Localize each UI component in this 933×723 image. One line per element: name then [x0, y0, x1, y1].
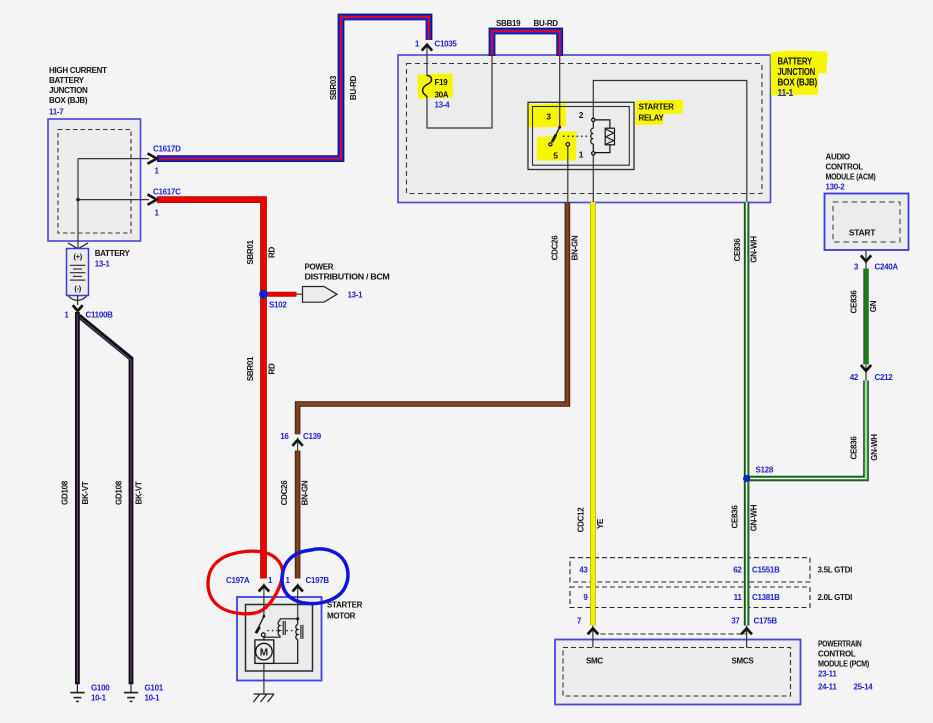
- connector arrow C197A: [259, 586, 269, 592]
- relay moving contact: [549, 143, 552, 146]
- svg-text:CONTROL: CONTROL: [826, 163, 864, 172]
- svg-text:S128: S128: [756, 466, 774, 475]
- svg-text:CE836: CE836: [733, 238, 742, 262]
- starter motor inner box: [246, 605, 313, 672]
- wire: branch to C1617D: [78, 158, 149, 160]
- svg-text:BN-GN: BN-GN: [301, 480, 310, 505]
- label: SMC SMCS: [586, 656, 754, 665]
- svg-text:CE836: CE836: [850, 436, 859, 460]
- svg-text:JUNCTION: JUNCTION: [778, 67, 816, 78]
- svg-text:2: 2: [579, 110, 584, 120]
- svg-text:130-2: 130-2: [826, 183, 846, 192]
- svg-text:BK-VT: BK-VT: [81, 481, 90, 504]
- svg-text:G100: G100: [91, 684, 110, 693]
- battery chevron connector (top): [68, 243, 88, 249]
- wire: battery to C1100B: [77, 296, 79, 306]
- svg-text:43: 43: [579, 566, 588, 575]
- svg-text:25-14: 25-14: [854, 682, 874, 691]
- svg-text:C240A: C240A: [875, 263, 899, 272]
- highlight: BATTERY JUNCTION BOX (BJB) 11-1 label: [771, 51, 828, 96]
- connector box: 3.5L GTDI (C1551B row): [570, 558, 810, 582]
- svg-text:SBR01: SBR01: [246, 356, 255, 381]
- svg-text:GN-WH: GN-WH: [870, 434, 879, 461]
- relay resistor (parallel with coil): [595, 120, 610, 153]
- label: C197A 1: [226, 576, 273, 585]
- svg-text:C1617C: C1617C: [153, 187, 181, 196]
- svg-text:BU-RD: BU-RD: [534, 19, 559, 28]
- label: G100 10-1: [91, 684, 110, 703]
- svg-text:62: 62: [733, 566, 742, 575]
- label: 9 11 C1381B 2.0L GTDI: [583, 593, 852, 602]
- svg-text:42: 42: [850, 373, 859, 382]
- wire: C1035 lead into BJB: [426, 44, 428, 77]
- label: BATTERY 13-1: [95, 249, 131, 269]
- label: 43 62 C1551B 3.5L GTDI: [579, 566, 852, 575]
- wire CE836 GN (C240A to C212): [863, 269, 868, 365]
- svg-text:MOTOR: MOTOR: [327, 612, 356, 621]
- svg-text:16: 16: [280, 432, 289, 441]
- svg-text:BK-VT: BK-VT: [135, 481, 144, 504]
- svg-text:C139: C139: [303, 432, 322, 441]
- wire: branch to C1617C: [78, 199, 149, 201]
- svg-text:RELAY: RELAY: [639, 114, 665, 123]
- starter solenoid coil 2 (hold-in): [297, 619, 299, 625]
- svg-text:37: 37: [731, 617, 740, 626]
- connector bracket C175B (dashed): [601, 633, 747, 635]
- svg-text:CDC26: CDC26: [551, 235, 560, 261]
- svg-text:SBR01: SBR01: [246, 240, 255, 265]
- svg-text:MODULE (ACM): MODULE (ACM): [826, 173, 877, 182]
- wire RD stub (S102 to BCM): [264, 292, 297, 297]
- wire: ACM START lead to C240A: [865, 250, 867, 269]
- label: battery (+) (-): [73, 252, 82, 293]
- wire: relay pin 2 up and over to green exit: [593, 81, 747, 203]
- svg-text:SMCS: SMCS: [732, 656, 755, 665]
- module box: AUDIO CONTROL MODULE (ACM): [825, 194, 909, 251]
- svg-text:S102: S102: [269, 301, 287, 310]
- svg-text:BOX (BJB): BOX (BJB): [778, 78, 818, 89]
- svg-text:BOX (BJB): BOX (BJB): [49, 96, 88, 105]
- svg-text:GN: GN: [869, 300, 878, 312]
- ground G100: [70, 684, 84, 701]
- label: SBB19 BU-RD: [496, 19, 558, 28]
- svg-text:1: 1: [579, 150, 584, 160]
- wire: C197B lead into starter motor: [297, 584, 299, 619]
- module box: HIGH CURRENT BATTERY JUNCTION BOX (BJB): [48, 119, 141, 241]
- connector arrow C240A (down): [861, 255, 871, 261]
- connector arrow C1617C: [148, 194, 157, 204]
- svg-text:24-11: 24-11: [818, 682, 837, 691]
- svg-text:C1617D: C1617D: [153, 145, 181, 154]
- chassis ground (starter motor): [253, 694, 274, 702]
- svg-text:13-4: 13-4: [435, 101, 451, 110]
- module box: BATTERY JUNCTION BOX (BJB) top: [398, 55, 771, 203]
- label: relay pins 3 2 5 1: [546, 110, 584, 161]
- annotation: hand-drawn red circle around C197A: [208, 551, 283, 614]
- svg-text:START: START: [849, 228, 876, 238]
- label: 16 C139: [280, 432, 322, 441]
- connector arrow C212 (down): [861, 365, 871, 371]
- svg-text:F19: F19: [435, 78, 449, 87]
- fuse F19 30A: [423, 76, 432, 98]
- label: G101 10-1: [145, 684, 164, 703]
- splice S102: [259, 290, 268, 299]
- svg-text:BATTERY: BATTERY: [49, 76, 85, 85]
- wire BK-VT right (C1100B to G101): [79, 316, 131, 684]
- wire CDC26 BN-GN (C139 to C197B): [295, 451, 301, 579]
- starter switch contact: [261, 633, 265, 637]
- label: STARTER RELAY: [639, 103, 675, 123]
- starter solenoid coil 1 (pull-in): [280, 618, 298, 620]
- svg-text:C1035: C1035: [435, 40, 458, 49]
- svg-text:3: 3: [546, 112, 551, 122]
- svg-text:C175B: C175B: [754, 617, 778, 626]
- starter linkage dotted line: [267, 630, 293, 632]
- svg-text:DISTRIBUTION / BCM: DISTRIBUTION / BCM: [305, 273, 391, 282]
- starter switch blade: [257, 616, 264, 631]
- highlight: fuse F19: [418, 74, 454, 99]
- wire SBR03 BU-RD (C1617D to C1035): [157, 17, 429, 159]
- svg-text:BATTERY: BATTERY: [778, 57, 813, 68]
- relay linkage dotted line: [563, 135, 587, 137]
- wire: PCM pin 7 lead: [592, 624, 594, 648]
- svg-text:SBR03: SBR03: [329, 75, 338, 100]
- connector arrow C139: [292, 440, 302, 446]
- wire CDC26 BN-GN (relay pin 5 to C139): [298, 202, 568, 434]
- svg-text:JUNCTION: JUNCTION: [49, 86, 88, 95]
- wire: PCM pin 37 lead: [746, 624, 748, 648]
- svg-text:CE836: CE836: [731, 505, 740, 529]
- svg-text:5: 5: [553, 151, 558, 161]
- svg-text:30A: 30A: [435, 91, 449, 100]
- relay coil (pins 2-1): [592, 118, 595, 121]
- relay fixed contact (pin 5): [566, 143, 570, 147]
- svg-text:10-1: 10-1: [91, 694, 107, 703]
- connector arrow C1100B (down): [73, 305, 83, 311]
- battery plates: [70, 265, 86, 280]
- label: C1617D: [153, 145, 181, 176]
- svg-text:CDC26: CDC26: [280, 480, 289, 506]
- connector box: 2.0L GTDI (C1381B row): [570, 587, 810, 608]
- svg-text:3.5L GTDI: 3.5L GTDI: [818, 566, 853, 575]
- svg-text:CE836: CE836: [850, 290, 859, 314]
- wire CE836 GN-WH (relay pin 2 to S128 to PCM SMCS): [744, 202, 750, 626]
- connector arrow C197B: [293, 586, 303, 592]
- label: 42 C212: [850, 373, 894, 382]
- svg-text:POWERTRAIN: POWERTRAIN: [818, 640, 862, 649]
- svg-text:(-): (-): [74, 284, 81, 293]
- wire: S102 stub to BCM pentagon: [296, 293, 303, 295]
- svg-text:YE: YE: [596, 518, 605, 529]
- svg-text:C197A: C197A: [226, 576, 250, 585]
- svg-text:AUDIO: AUDIO: [826, 153, 850, 162]
- svg-text:POWER: POWER: [305, 263, 334, 272]
- module box: STARTER MOTOR (outer blue): [237, 597, 322, 681]
- wire: fuse to SBB19 left leg: [427, 56, 492, 128]
- wire CDC12 YE (relay pin 1 to PCM SMC): [590, 202, 596, 626]
- wire SBR01 RD (C1617C to S102 to C197A): [157, 200, 264, 579]
- ground G101: [124, 684, 138, 701]
- label: STARTER MOTOR: [327, 601, 363, 621]
- highlight: STARTER RELAY label: [636, 100, 684, 125]
- starter switch pivot: [263, 615, 266, 618]
- svg-text:GN-WH: GN-WH: [750, 236, 759, 263]
- label: 1 C1100B: [64, 311, 113, 320]
- svg-text:13-1: 13-1: [348, 291, 364, 300]
- label: AUDIO CONTROL MODULE (ACM) 130-2: [826, 153, 877, 192]
- svg-text:CDC12: CDC12: [577, 507, 586, 533]
- node: POWER DISTRIBUTION / BCM pentagon: [303, 287, 338, 303]
- label: HIGH CURRENT BJB text block: [49, 66, 107, 117]
- connector arrow PCM pin 7: [588, 628, 599, 634]
- svg-text:23-11: 23-11: [818, 670, 837, 679]
- wire: C212 gap lead: [865, 365, 867, 381]
- wire: relay pin 5 down to brown exit: [567, 146, 569, 202]
- wire: C197A lead into starter motor: [263, 584, 265, 617]
- svg-text:GD108: GD108: [115, 480, 124, 505]
- label: POWERTRAIN CONTROL MODULE (PCM): [818, 640, 873, 692]
- wire: SBB19 right leg down to relay pin 3: [559, 56, 561, 127]
- label: POWER DISTRIBUTION / BCM 13-1: [305, 263, 391, 300]
- junction node (BJB-HC): [76, 198, 80, 202]
- label: 1 C1035: [415, 40, 458, 49]
- junction node (starter solenoid feed): [296, 617, 299, 620]
- svg-text:STARTER: STARTER: [639, 103, 675, 112]
- label: C1617C: [153, 187, 181, 217]
- wire BK-VT left (C1100B to G100): [75, 312, 80, 684]
- battery B1 box: [67, 249, 89, 296]
- svg-text:G101: G101: [145, 684, 164, 693]
- motor M (starter): [255, 640, 274, 664]
- svg-text:MODULE (PCM): MODULE (PCM): [818, 660, 870, 669]
- svg-text:C1381B: C1381B: [752, 593, 780, 602]
- svg-text:2.0L GTDI: 2.0L GTDI: [818, 593, 853, 602]
- svg-text:RD: RD: [268, 247, 277, 258]
- svg-text:HIGH CURRENT: HIGH CURRENT: [49, 66, 107, 75]
- svg-text:C1100B: C1100B: [86, 311, 114, 320]
- svg-text:C212: C212: [875, 373, 894, 382]
- svg-text:RD: RD: [268, 363, 277, 374]
- svg-text:SMC: SMC: [586, 656, 603, 665]
- label: 7 37 C175B: [577, 617, 778, 626]
- relay switch blade: [552, 127, 559, 141]
- highlight: relay pin 5 / switch: [537, 132, 577, 161]
- connector arrow C1617D: [148, 153, 157, 163]
- svg-text:11-1: 11-1: [778, 88, 794, 99]
- svg-text:CONTROL: CONTROL: [818, 650, 856, 659]
- splice S128: [743, 475, 750, 482]
- connector arrow PCM pin 37: [741, 628, 752, 634]
- wire: BJB-HC internal vertical (battery feed): [77, 159, 79, 249]
- svg-text:SBB19: SBB19: [496, 19, 521, 28]
- wire: relay pin 1 down to yellow exit: [592, 155, 594, 202]
- svg-text:10-1: 10-1: [145, 694, 161, 703]
- svg-text:BATTERY: BATTERY: [95, 249, 131, 258]
- wire CE836 GN-WH (S128 to C212): [747, 381, 866, 479]
- wire: motor to chassis ground: [263, 663, 265, 694]
- svg-text:13-1: 13-1: [95, 260, 111, 269]
- svg-text:C1551B: C1551B: [752, 566, 780, 575]
- svg-text:BN-GN: BN-GN: [571, 235, 580, 260]
- relay U1: STARTER RELAY outer box: [528, 102, 634, 169]
- label: F19 30A 13-4: [435, 78, 451, 110]
- relay switch pivot (pin 3): [558, 126, 561, 129]
- connector arrow C139 stem: [297, 438, 299, 452]
- svg-text:GN-WH: GN-WH: [750, 504, 759, 531]
- module box: POWERTRAIN CONTROL MODULE (PCM): [555, 640, 801, 705]
- svg-text:11-7: 11-7: [49, 108, 64, 117]
- highlight: relay pin 3: [529, 104, 567, 128]
- annotation: hand-drawn blue circle around C197B: [282, 549, 348, 604]
- svg-text:C197B: C197B: [306, 576, 330, 585]
- connector arrow C1035: [422, 45, 432, 51]
- svg-text:M: M: [260, 647, 268, 658]
- svg-text:GD108: GD108: [61, 480, 70, 505]
- svg-text:BU-RD: BU-RD: [349, 75, 358, 100]
- battery lower curved connector: [69, 296, 87, 300]
- svg-text:11: 11: [734, 593, 743, 602]
- svg-text:STARTER: STARTER: [327, 601, 363, 610]
- wire SBB19 BU-RD (fuse loop): [492, 31, 560, 56]
- relay U1 inner box: [533, 107, 630, 166]
- label: BATTERY JUNCTION BOX (BJB) 11-1: [778, 57, 818, 100]
- svg-text:(+): (+): [73, 252, 82, 261]
- label: 3 C240A: [854, 263, 899, 272]
- label: 1 C197B: [286, 576, 330, 585]
